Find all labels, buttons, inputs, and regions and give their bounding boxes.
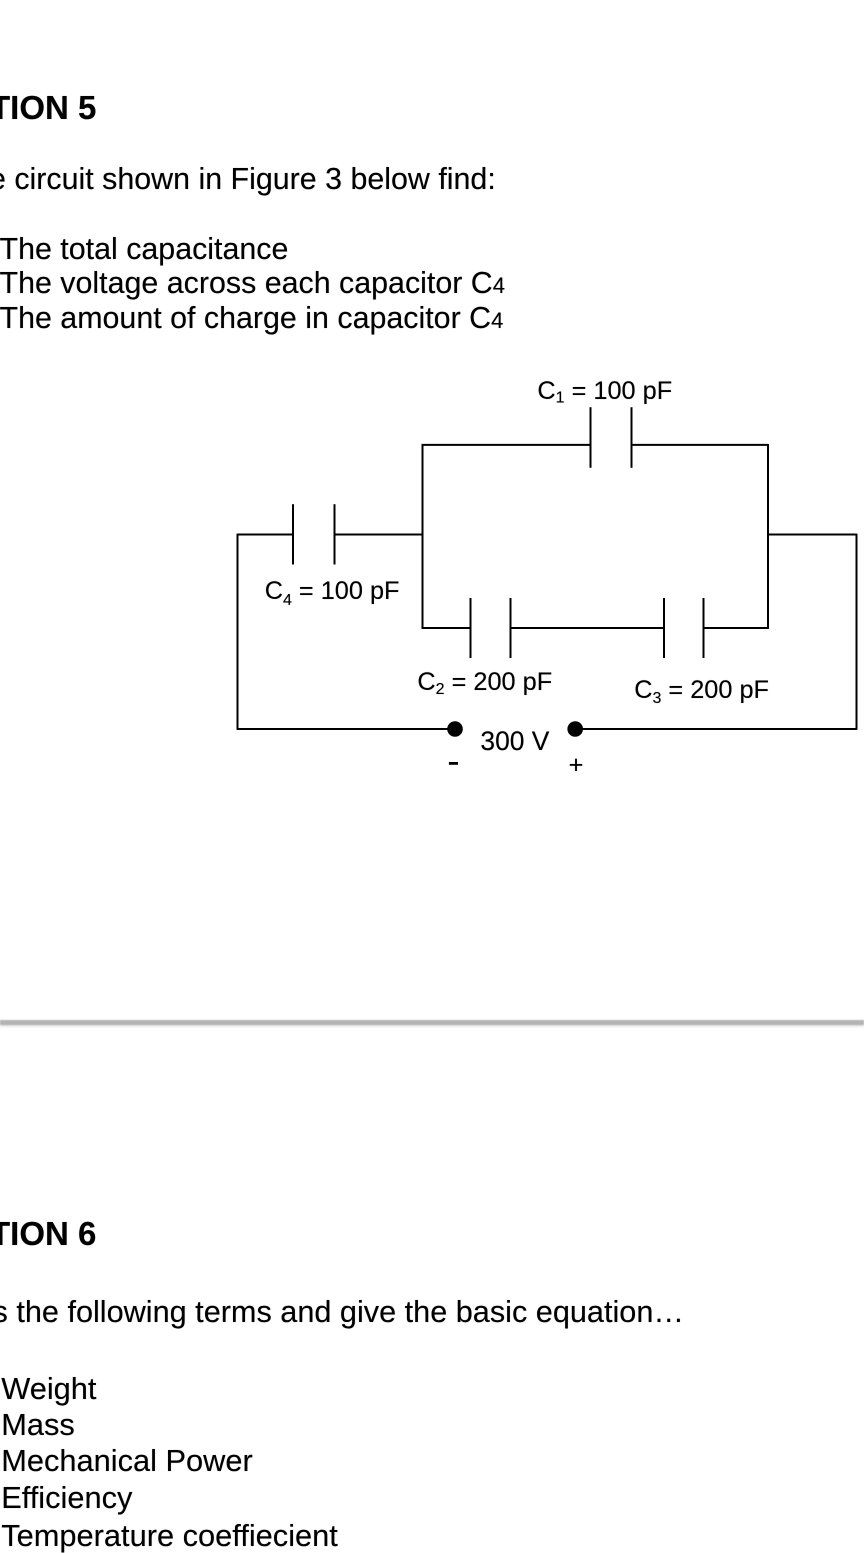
- wire: bottom wire left segment: [237, 728, 455, 730]
- label: C4 = 100 pF: [265, 579, 400, 609]
- capacitor C3 plates: [664, 598, 704, 658]
- label: C2 = 200 pF: [417, 670, 552, 698]
- capacitor C1 plates: [591, 407, 632, 468]
- list item: Mass: [1, 1410, 75, 1441]
- wire: outer left vertical: [237, 534, 239, 729]
- heading QUESTION 5: [0, 91, 96, 124]
- wire: bottom inner wire middle segment: [511, 627, 665, 629]
- list item: Temperature coeffiecient: [1, 1521, 338, 1552]
- wire: bottom inner wire right segment: [704, 627, 769, 629]
- list item: voltage across C4: [0, 268, 505, 298]
- label: 300 V source value: [480, 728, 549, 754]
- label: positive polarity sign: [569, 753, 584, 778]
- wire: middle wire from C4 to inner rectangle: [335, 534, 423, 536]
- wire: inner right vertical: [767, 444, 769, 629]
- list item: total capacitance: [0, 234, 288, 264]
- wire: bottom wire right segment: [575, 728, 856, 730]
- list item: charge in C4: [0, 303, 503, 333]
- wire: outer right vertical: [856, 534, 858, 730]
- paragraph: define following terms: [0, 1297, 684, 1328]
- wire: inner left vertical: [422, 444, 424, 629]
- paragraph: circuit shown in Figure 3: [0, 164, 496, 194]
- capacitor C4 plates: [293, 504, 335, 564]
- page separator bar: [0, 1020, 864, 1026]
- label: C1 = 100 pF: [537, 379, 672, 407]
- heading QUESTION 6: [0, 1217, 96, 1250]
- wire: bottom inner wire left segment: [422, 627, 471, 629]
- label: negative polarity sign: [449, 762, 458, 765]
- list item: Weight: [1, 1374, 96, 1405]
- label: C3 = 200 pF: [634, 678, 769, 707]
- node: positive terminal dot: [567, 721, 583, 737]
- list item: Efficiency: [1, 1483, 132, 1514]
- wire: top wire right segment: [632, 444, 769, 446]
- wire: middle right wire: [768, 534, 857, 536]
- capacitor C2 plates: [471, 598, 511, 658]
- wire: top wire left segment: [422, 444, 591, 446]
- list item: Mechanical Power: [1, 1446, 253, 1477]
- node: negative terminal dot: [447, 721, 463, 737]
- wire: middle left wire from outer loop to C4: [238, 534, 294, 536]
- circuit schematic figure 3: [0, 360, 864, 780]
